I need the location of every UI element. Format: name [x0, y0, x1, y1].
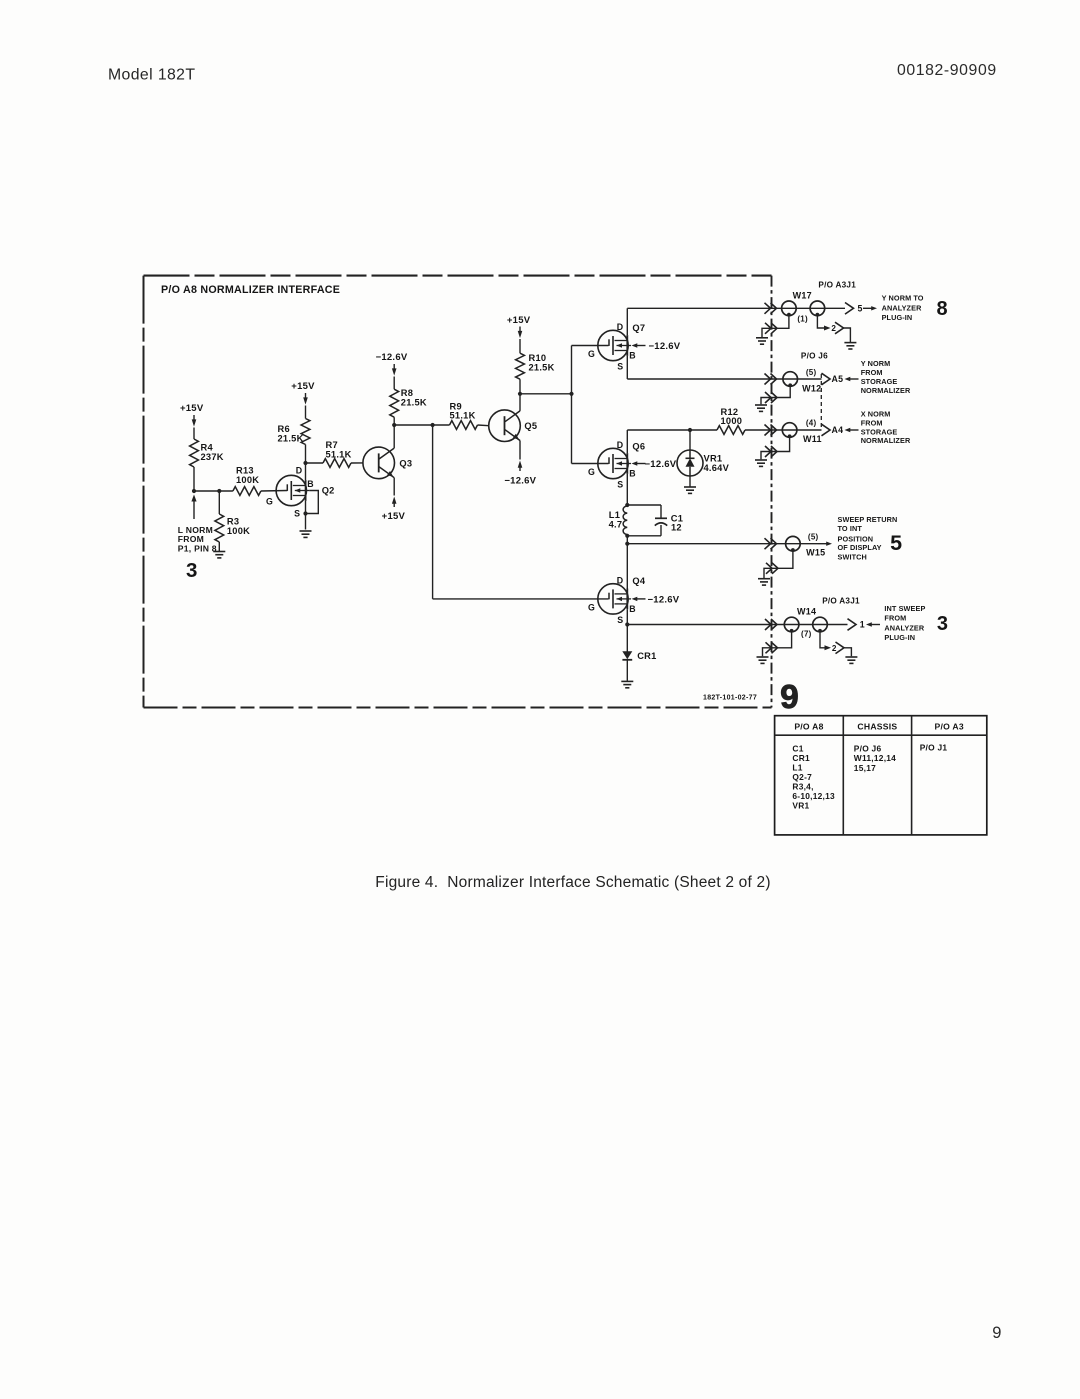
plug pin arrow A5 [822, 373, 831, 385]
wire node L to W14 [627, 624, 784, 626]
svg-text:INT SWEEP: INT SWEEP [884, 604, 925, 613]
svg-text:−12.6V: −12.6V [645, 459, 677, 470]
schematic boundary top dashed edge [144, 275, 772, 277]
Q3 emitter wire down [393, 478, 395, 496]
wire CR1 to ground [626, 660, 628, 681]
chevron on W11 shield wire [765, 446, 777, 457]
svg-text:W17: W17 [793, 290, 812, 300]
connector W15 circle [786, 536, 801, 551]
svg-text:NORMALIZER: NORMALIZER [861, 386, 911, 395]
Q4 gate feed vertical wire from node E [432, 425, 434, 599]
pin symbol 2 W17 [835, 322, 844, 334]
wire R9 to Q5 base [478, 424, 490, 427]
wire node A to R13 [194, 490, 233, 492]
node L junction dot [625, 622, 629, 626]
-12.6V arrow into Q4 bulk [632, 597, 638, 601]
svg-text:G: G [266, 496, 273, 506]
wire Q7 drain to W17 [627, 307, 781, 309]
svg-text:−12.6V: −12.6V [376, 352, 408, 363]
Q7 drain wire up [626, 308, 628, 335]
pin symbol 2 W14 [836, 642, 845, 654]
wire Q7 source to W12 [627, 378, 783, 380]
node K junction dot sweep line [625, 542, 629, 546]
svg-text:(5): (5) [808, 533, 819, 542]
plug pin arrow 1 [848, 619, 857, 631]
svg-text:51.1K: 51.1K [326, 449, 352, 459]
svg-text:1000: 1000 [721, 416, 743, 426]
wire W11 to pin A4 [783, 429, 822, 431]
Q4 source wire to node L [626, 609, 628, 624]
chevron on W12 shield wire [765, 392, 777, 403]
resistor R8 [390, 389, 399, 417]
svg-text:PLUG-IN: PLUG-IN [884, 633, 915, 642]
svg-text:CR1: CR1 [637, 651, 656, 661]
W14 pin2 shield wire [820, 632, 825, 648]
svg-text:W14: W14 [797, 606, 816, 616]
wire +15V to R4 [193, 428, 195, 440]
svg-text:Q2: Q2 [322, 486, 335, 496]
ground W11 shield [755, 459, 767, 461]
wire R3 to ground [218, 542, 220, 551]
connector boundary dashed link A5 to A4 [820, 374, 822, 430]
svg-text:4.64V: 4.64V [704, 463, 730, 473]
Q3 collector wire to node D [393, 425, 395, 448]
W14 shield wire to chassis ground [763, 632, 792, 657]
svg-text:X NORM: X NORM [861, 410, 891, 419]
wire node B to R3 [218, 491, 220, 514]
wire R8 to node D [393, 417, 395, 425]
ground pin2 W17 [844, 342, 856, 344]
svg-text:S: S [294, 509, 300, 519]
svg-text:TO INT: TO INT [838, 524, 863, 533]
svg-text:Y NORM TO: Y NORM TO [882, 294, 924, 303]
svg-text:P/O J1: P/O J1 [920, 743, 948, 753]
svg-text:W15: W15 [806, 547, 825, 557]
svg-text:D: D [617, 575, 624, 585]
svg-text:+15V: +15V [291, 381, 315, 392]
svg-text:D: D [617, 440, 624, 450]
svg-text:D: D [617, 322, 624, 332]
ground W14 shield [757, 656, 769, 658]
svg-text:A4: A4 [832, 425, 844, 435]
svg-text:51.1K: 51.1K [450, 411, 476, 421]
cable chevron on Y NORM TO line [765, 303, 777, 314]
X NORM wire Q6 drain to VR1 node [627, 429, 690, 431]
cable chevron on Y NORM FROM line [765, 374, 777, 385]
svg-text:5: 5 [858, 304, 863, 314]
svg-text:P/O A3J1: P/O A3J1 [818, 280, 856, 289]
plug pin arrow A4 [822, 424, 831, 436]
svg-text:ANALYZER: ANALYZER [884, 623, 924, 632]
zener diode VR1 [677, 450, 703, 476]
schematic boundary bottom dashed edge [144, 706, 772, 708]
svg-text:12: 12 [671, 523, 682, 533]
wire supply to R10 [519, 339, 521, 353]
svg-text:5: 5 [890, 531, 902, 555]
svg-text:+15V: +15V [180, 403, 204, 414]
svg-text:100K: 100K [236, 475, 259, 485]
svg-text:(5): (5) [806, 368, 817, 377]
+15V supply arrow below Q3 [392, 497, 397, 504]
svg-text:+15V: +15V [507, 315, 531, 326]
svg-text:P/O A8: P/O A8 [794, 721, 823, 731]
W17 shield wire to chassis ground [762, 316, 789, 338]
svg-text:21.5K: 21.5K [529, 363, 555, 373]
svg-text:L1: L1 [792, 762, 802, 772]
Q5 emitter wire down [519, 441, 521, 460]
svg-text:L1: L1 [609, 510, 620, 520]
svg-text:R3: R3 [227, 517, 239, 527]
destination table column divider 2 [911, 716, 913, 835]
wire W17 to plug pin 5 [782, 307, 845, 309]
wire node L to CR1 [626, 625, 628, 652]
diode CR1 [622, 651, 632, 659]
svg-text:VR1: VR1 [704, 453, 723, 463]
svg-text:R8: R8 [401, 388, 413, 398]
Q2 drain wire to node C [305, 463, 307, 480]
arrow to pin 2 of W14 [825, 645, 832, 650]
svg-text:Q5: Q5 [524, 421, 537, 431]
svg-text:9: 9 [992, 1324, 1001, 1342]
resistor R10 [516, 353, 525, 379]
svg-text:ANALYZER: ANALYZER [882, 304, 922, 313]
svg-text:Y NORM: Y NORM [861, 359, 891, 368]
ground W17 shield [756, 337, 768, 339]
transistor Q2 depletion MOSFET [276, 475, 306, 505]
W12 shield wire to ground [761, 386, 790, 405]
inductor L1 [623, 506, 627, 534]
wire node J to node K [626, 536, 628, 544]
resistor R3 [215, 514, 224, 542]
node C junction dot [303, 461, 307, 465]
svg-text:VR1: VR1 [792, 800, 809, 810]
cable chevron on int sweep line [765, 619, 777, 630]
svg-text:3: 3 [186, 559, 198, 582]
wire W14 to plug pin 1 [785, 624, 848, 626]
node B junction dot [217, 489, 221, 493]
wire R7 to Q3 base [351, 462, 363, 464]
svg-text:2: 2 [832, 644, 837, 653]
svg-text:100K: 100K [227, 526, 250, 536]
svg-text:PLUG-IN: PLUG-IN [882, 313, 913, 322]
vertical wire node G to Q7 and Q6 gates [571, 346, 573, 464]
svg-text:G: G [588, 602, 595, 612]
arrow to pin 2 of W17 [824, 326, 831, 331]
svg-text:R13: R13 [236, 466, 254, 476]
node G junction dot [569, 392, 573, 396]
svg-text:8: 8 [937, 298, 948, 320]
svg-text:Model 182T: Model 182T [108, 67, 195, 84]
svg-text:FROM: FROM [178, 534, 204, 544]
wire node K down to Q4 drain [626, 544, 628, 589]
signal direction arrow sweep return [826, 542, 832, 546]
+15V supply arrow above R10 [519, 327, 521, 332]
wire R4 to node A [193, 467, 195, 491]
+15V supply arrow above R4 [193, 415, 195, 420]
ground below R3 [213, 551, 225, 553]
svg-text:G: G [588, 349, 595, 359]
resistor R9 [450, 421, 478, 430]
resistor R13 [233, 487, 261, 496]
svg-text:FROM: FROM [861, 418, 883, 427]
svg-text:NORMALIZER: NORMALIZER [861, 436, 911, 445]
svg-text:C1: C1 [792, 743, 803, 753]
svg-text:−12.6V: −12.6V [504, 475, 536, 486]
svg-text:Q3: Q3 [399, 459, 412, 469]
svg-text:R6: R6 [278, 424, 290, 434]
wire node K to W15 [627, 543, 786, 545]
ground below VR1 [684, 486, 696, 488]
capacitor C1 branch top wire [627, 504, 661, 506]
svg-text:15,17: 15,17 [854, 763, 876, 773]
svg-text:B: B [629, 469, 636, 479]
wire to Q6 gate [572, 463, 609, 465]
signal direction arrow Y NORM FROM [845, 377, 851, 381]
-12.6V supply arrow below Q5 [518, 461, 523, 468]
plug pin arrow 5 [845, 303, 854, 315]
svg-text:STORAGE: STORAGE [861, 427, 898, 436]
transistor Q7 depletion MOSFET [598, 330, 628, 360]
ground below CR1 [621, 680, 633, 682]
wire W15 to display switch [786, 543, 818, 545]
wire +15V to R6 [305, 406, 307, 419]
svg-text:Q6: Q6 [632, 441, 645, 451]
svg-text:9: 9 [780, 679, 799, 716]
destination table column divider 1 [842, 716, 844, 835]
node E junction dot [431, 423, 435, 427]
node I junction dot above VR1 [688, 428, 692, 432]
svg-text:6-10,12,13: 6-10,12,13 [792, 791, 835, 801]
wire node C to R7 [306, 462, 324, 464]
-12.6V arrow into Q7 bulk [632, 343, 638, 347]
svg-text:+15V: +15V [382, 511, 406, 522]
svg-text:21.5K: 21.5K [401, 398, 427, 408]
svg-text:P/O A3J1: P/O A3J1 [822, 596, 860, 605]
svg-text:237K: 237K [201, 452, 224, 462]
svg-text:2: 2 [831, 324, 836, 333]
schematic boundary left dashed edge [143, 276, 145, 708]
svg-text:−12.6V: −12.6V [648, 595, 680, 606]
node A junction dot [192, 489, 196, 493]
svg-text:OF DISPLAY: OF DISPLAY [838, 543, 882, 552]
resistor R4 [190, 439, 199, 467]
transistor Q3 NPN [363, 447, 395, 479]
connector W17 second circle [810, 301, 825, 316]
transistor Q4 depletion MOSFET [598, 584, 628, 614]
wire R10 to node F [519, 379, 521, 394]
svg-text:W11: W11 [803, 434, 822, 444]
chevron on W17 shield wire [765, 323, 777, 334]
wire pin2 W14 to ground [844, 648, 851, 657]
signal direction arrow INT SWEEP [866, 622, 872, 626]
svg-text:Q2-7: Q2-7 [792, 772, 812, 782]
-12.6V arrow into Q6 bulk [632, 461, 638, 465]
cable chevron on sweep return line [765, 538, 777, 549]
svg-text:SWITCH: SWITCH [838, 553, 867, 562]
wire R13 to Q2 gate [261, 490, 287, 493]
Q7 source wire down [626, 356, 628, 379]
resistor R7 [323, 459, 351, 468]
svg-text:00182-90909: 00182-90909 [897, 62, 997, 79]
transistor Q5 NPN [489, 410, 521, 442]
connector W12 circle [783, 372, 798, 387]
L NORM input arrow [193, 500, 195, 519]
chevron on W14 shield wire [766, 642, 778, 653]
svg-text:P/O A8 NORMALIZER INTERFACE: P/O A8 NORMALIZER INTERFACE [161, 284, 340, 296]
cable chevron on X NORM line [765, 425, 777, 436]
svg-text:3: 3 [937, 613, 948, 635]
transistor Q6 depletion MOSFET [598, 448, 628, 478]
Q2 bulk to source loop wire [306, 491, 319, 514]
svg-text:4.7: 4.7 [609, 520, 623, 530]
Q6 source wire down to node H [626, 474, 628, 505]
wire node D to node E [394, 424, 449, 426]
Q4 gate feed horizontal wire [433, 598, 609, 600]
capacitor C1 [655, 517, 667, 519]
W11 shield wire to ground [761, 437, 790, 460]
svg-text:STORAGE: STORAGE [861, 377, 898, 386]
capacitor C1 branch bottom wire [627, 535, 661, 537]
wire node F to node G [520, 393, 572, 395]
W15 shield wire to ground [764, 551, 793, 579]
svg-text:−12.6V: −12.6V [649, 341, 681, 352]
connector W14 second circle [813, 617, 828, 632]
schematic boundary right dash-dot edge [771, 276, 773, 708]
svg-text:G: G [588, 467, 595, 477]
svg-text:W11,12,14: W11,12,14 [854, 753, 896, 763]
signal direction arrow Y NORM TO [871, 306, 877, 310]
svg-text:Figure 4. Normalizer Interfac: Figure 4. Normalizer Interface Schematic… [375, 874, 770, 891]
node D junction dot [392, 423, 396, 427]
chevron on W15 shield wire [766, 563, 778, 574]
svg-text:S: S [617, 362, 623, 372]
svg-text:Q7: Q7 [632, 323, 645, 333]
svg-text:(4): (4) [806, 419, 817, 428]
node J junction dot below L1 [625, 534, 629, 538]
-12.6V supply arrow above R8 [393, 364, 395, 369]
ground W15 shield [758, 578, 770, 580]
svg-text:B: B [629, 604, 636, 614]
svg-text:R3,4,: R3,4, [792, 781, 813, 791]
connector W11 circle [782, 423, 797, 438]
svg-text:B: B [629, 351, 636, 361]
wire pin2 W17 to ground [844, 328, 851, 342]
wire node I to VR1 [689, 430, 691, 450]
svg-text:FROM: FROM [884, 614, 906, 623]
svg-text:P/O J6: P/O J6 [854, 743, 882, 753]
svg-text:S: S [617, 480, 623, 490]
svg-text:B: B [307, 479, 314, 489]
wire supply to R8 [393, 377, 395, 390]
svg-text:CR1: CR1 [792, 753, 810, 763]
svg-text:FROM: FROM [861, 368, 883, 377]
ground W12 shield [755, 404, 767, 406]
svg-text:(7): (7) [801, 629, 812, 638]
destination table header separator [775, 734, 987, 736]
wire node I to R12 [690, 429, 717, 431]
W17 pin2 shield wire [817, 316, 824, 329]
wire R12 to W11 [745, 429, 783, 431]
svg-text:A5: A5 [832, 374, 844, 384]
ground pin2 W14 [845, 656, 857, 658]
svg-text:Q4: Q4 [632, 576, 645, 586]
svg-text:P/O A3: P/O A3 [935, 721, 964, 731]
svg-text:182T-101-02-77: 182T-101-02-77 [703, 694, 757, 701]
resistor R6 [301, 419, 310, 445]
svg-text:W12: W12 [802, 383, 821, 393]
svg-text:P1, PIN 8: P1, PIN 8 [178, 543, 217, 553]
svg-text:R4: R4 [201, 443, 214, 453]
svg-text:CHASSIS: CHASSIS [857, 721, 897, 731]
node F junction dot [518, 392, 522, 396]
connector W17 first circle [782, 301, 797, 316]
svg-text:P/O J6: P/O J6 [801, 351, 828, 360]
wire to Q7 gate [572, 345, 609, 347]
wire R6 to node C [305, 445, 307, 464]
signal direction arrow X NORM FROM [845, 428, 851, 432]
wire W12 to pin A5 [783, 378, 821, 380]
svg-text:(1): (1) [797, 314, 808, 323]
wire VR1 to ground [689, 476, 691, 487]
node on Q2 source loop [303, 511, 307, 515]
+15V supply arrow above R6 [305, 393, 307, 398]
connector W14 first circle [784, 617, 799, 632]
svg-text:SWEEP RETURN: SWEEP RETURN [838, 515, 898, 524]
svg-text:S: S [617, 615, 623, 625]
Q6 drain wire up to X NORM line [626, 430, 628, 453]
Q2 source wire to ground [305, 501, 307, 530]
resistor R12 [717, 426, 745, 435]
svg-text:1: 1 [860, 620, 865, 630]
ground below Q2 source [300, 530, 312, 532]
svg-text:D: D [296, 466, 303, 476]
Q5 collector wire to node F [519, 394, 521, 411]
node H junction dot [625, 503, 629, 507]
destination table outer frame [775, 716, 987, 835]
svg-text:21.5K: 21.5K [278, 433, 304, 443]
